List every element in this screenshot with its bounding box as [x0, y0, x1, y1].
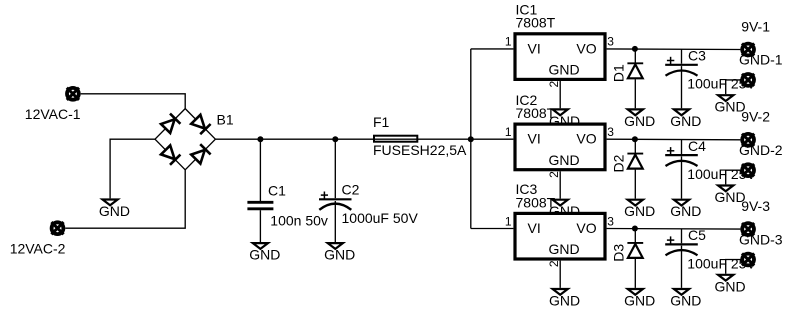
svg-text:D1: D1	[610, 64, 626, 82]
junction D3 output	[632, 226, 638, 232]
svg-text:GND: GND	[624, 203, 655, 219]
svg-text:VI: VI	[528, 131, 541, 147]
svg-text:GND: GND	[549, 62, 580, 78]
ground GND GND-1	[715, 95, 746, 115]
svg-text:9V-1: 9V-1	[741, 18, 770, 34]
ground GND IC2 pin2	[549, 200, 580, 220]
connector GND-1	[742, 74, 754, 86]
connector 9V-3	[742, 223, 754, 235]
connector GND-2	[742, 164, 754, 176]
svg-text:D2: D2	[610, 154, 626, 172]
junction D1 output	[632, 46, 638, 52]
wire bridge DC- to ground	[110, 139, 155, 198]
wire C2 to ground	[334, 201, 336, 242]
svg-text:1: 1	[505, 35, 512, 49]
bridge B1 diode top-left	[161, 114, 180, 133]
svg-text:7808T: 7808T	[516, 194, 556, 210]
svg-text:7808T: 7808T	[516, 105, 556, 121]
svg-text:2: 2	[547, 171, 561, 178]
wire IC2 output	[607, 138, 741, 141]
ground GND D1	[624, 109, 655, 128]
connector 9V-2	[742, 134, 754, 146]
wire GND-1 to ground	[726, 80, 741, 94]
wire D2 anode to ground	[634, 170, 636, 199]
svg-text:VO: VO	[576, 131, 596, 147]
diode D2	[627, 154, 643, 169]
junction C1 bus	[257, 136, 263, 142]
wire D1 cathode	[634, 49, 636, 63]
wire IC2 pin2 to ground	[559, 171, 561, 198]
wire IC3 pin2 to ground	[559, 261, 561, 288]
wire DC bus	[215, 138, 470, 140]
junction C2 bus	[332, 136, 338, 142]
diode D3	[627, 243, 643, 258]
connector 9V-1	[742, 43, 754, 55]
svg-text:9V-3: 9V-3	[741, 198, 770, 214]
ground GND C1	[249, 243, 280, 263]
wire C3 to ground	[681, 66, 683, 108]
capacitor C3 polarized	[665, 57, 698, 76]
svg-text:GND: GND	[624, 293, 655, 309]
svg-text:VI: VI	[528, 40, 541, 56]
svg-text:3: 3	[607, 125, 614, 139]
svg-text:GND: GND	[624, 113, 655, 129]
ground GND IC3 pin2	[549, 289, 580, 309]
svg-text:VO: VO	[576, 220, 596, 236]
svg-text:1: 1	[505, 125, 512, 139]
wire bus to IC3 pin1	[471, 228, 514, 230]
fuse F1	[374, 136, 417, 142]
ground GND C5	[670, 289, 701, 309]
svg-text:FUSESH22,5A: FUSESH22,5A	[373, 142, 467, 158]
junction D2 output	[632, 136, 638, 142]
svg-text:GND: GND	[324, 247, 355, 263]
bridge B1 diode bottom-right	[191, 144, 210, 163]
svg-text:C3: C3	[688, 48, 706, 64]
svg-text:1000uF 50V: 1000uF 50V	[342, 210, 419, 226]
svg-text:GND: GND	[670, 293, 701, 309]
svg-text:100n 50v: 100n 50v	[270, 212, 328, 228]
svg-text:GND: GND	[549, 293, 580, 309]
diode D1	[627, 63, 643, 78]
svg-text:D3: D3	[610, 244, 626, 262]
wire D2 cathode	[634, 139, 636, 153]
wire D3 anode to ground	[634, 259, 636, 288]
svg-text:GND: GND	[549, 152, 580, 168]
bridge B1 diode bottom-left	[161, 145, 180, 164]
wire C1 to ground	[259, 210, 261, 242]
capacitor C4 polarized	[665, 147, 698, 166]
svg-text:GND: GND	[670, 113, 701, 129]
ground GND C3	[670, 109, 701, 128]
svg-text:GND: GND	[670, 203, 701, 219]
svg-text:VO: VO	[576, 40, 596, 56]
wire C2 to bus	[334, 139, 336, 198]
wire C5 to output	[681, 229, 683, 243]
svg-text:GND: GND	[715, 278, 746, 294]
wire 12VAC-1 to bridge AC1	[81, 94, 186, 109]
regulator IC2 7808T	[515, 124, 605, 170]
wire C4 to ground	[681, 156, 683, 198]
connector X2 12VAC-2	[51, 222, 63, 234]
connector GND-3	[742, 253, 754, 265]
ground GND bridge	[99, 200, 130, 220]
svg-text:3: 3	[607, 35, 614, 49]
svg-text:B1: B1	[217, 111, 234, 127]
svg-text:C2: C2	[342, 181, 360, 197]
wire IC1 pin2 to ground	[559, 81, 561, 108]
wire 12VAC-2 to bridge AC2	[65, 170, 185, 228]
svg-text:2: 2	[547, 260, 561, 267]
wire IC1 output	[607, 48, 741, 51]
svg-text:9V-2: 9V-2	[741, 109, 770, 125]
ground GND IC1 pin2	[549, 109, 580, 128]
connector X1 12VAC-1	[67, 88, 79, 100]
svg-text:GND: GND	[99, 203, 130, 219]
ground GND D3	[624, 289, 655, 309]
wire bus to IC1 pin1	[471, 48, 514, 50]
wire GND-3 to ground	[726, 260, 741, 274]
svg-text:GND: GND	[549, 241, 580, 257]
capacitor C1	[247, 202, 273, 209]
wire D3 cathode	[634, 229, 636, 243]
wire GND-2 to ground	[726, 170, 741, 184]
svg-text:7808T: 7808T	[516, 15, 556, 31]
wire input bus vertical	[470, 49, 472, 229]
regulator IC1 7808T	[515, 34, 605, 80]
wire C1 to bus	[259, 139, 261, 201]
svg-text:C5: C5	[688, 227, 706, 243]
wire IC3 output	[607, 228, 741, 231]
bridge B1 frame	[155, 109, 215, 170]
capacitor C5 polarized	[665, 236, 698, 255]
capacitor C2 polarized	[319, 192, 352, 210]
bridge B1 diode top-right	[191, 115, 210, 134]
svg-text:12VAC-2: 12VAC-2	[10, 240, 66, 256]
svg-text:F1: F1	[373, 114, 390, 130]
ground GND GND-3	[715, 275, 746, 295]
svg-text:GND: GND	[249, 247, 280, 263]
wire bus to IC2 pin1	[471, 138, 514, 140]
ground GND GND-2	[715, 186, 746, 206]
wire C4 to output	[681, 140, 683, 154]
wire C3 to output	[681, 50, 683, 64]
junction bus vertical	[468, 136, 474, 142]
svg-text:3: 3	[607, 214, 614, 228]
ground GND C2	[324, 243, 355, 263]
wire D1 anode to ground	[634, 79, 636, 108]
regulator IC3 7808T	[515, 213, 605, 259]
svg-text:C4: C4	[688, 138, 706, 154]
ground GND D2	[624, 200, 655, 220]
svg-text:1: 1	[505, 214, 512, 228]
svg-text:2: 2	[547, 81, 561, 88]
svg-text:12VAC-1: 12VAC-1	[25, 106, 81, 122]
wire C5 to ground	[681, 246, 683, 288]
ground GND C4	[670, 200, 701, 220]
svg-text:VI: VI	[528, 220, 541, 236]
svg-text:C1: C1	[268, 183, 286, 199]
